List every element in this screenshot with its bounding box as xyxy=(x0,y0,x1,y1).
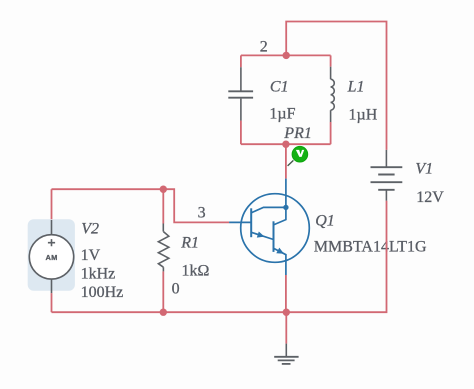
junction node 3 top xyxy=(160,186,167,193)
wire V2 top stub xyxy=(51,189,53,220)
svg-text:100Hz: 100Hz xyxy=(81,284,124,301)
svg-text:Q1: Q1 xyxy=(315,213,335,230)
wire probe node to Q1 collector xyxy=(285,144,287,178)
inductor L1 xyxy=(331,67,335,122)
wire tank bottom (node PR1) xyxy=(241,143,331,145)
transistor Q1 xyxy=(229,179,309,275)
svg-text:1µF: 1µF xyxy=(269,105,295,122)
svg-text:1V: 1V xyxy=(81,247,101,264)
junction node PR1 xyxy=(282,141,289,148)
wire ground stub xyxy=(285,312,287,343)
wire V1 bottom to ground rail xyxy=(286,201,386,312)
Q1 emitter arrow 2 xyxy=(276,248,284,254)
junction ground rail xyxy=(283,309,290,316)
svg-text:MMBTA14LT1G: MMBTA14LT1G xyxy=(314,239,427,256)
svg-text:V1: V1 xyxy=(415,161,433,178)
AM source V2 xyxy=(28,219,75,293)
wire C1 bottom stub xyxy=(240,121,242,145)
svg-text:3: 3 xyxy=(198,204,206,221)
battery V1 xyxy=(371,150,403,201)
wire top loop from node 2 junction to V1 top xyxy=(286,22,386,150)
svg-text:1µH: 1µH xyxy=(349,107,378,124)
capacitor C1 xyxy=(228,67,253,120)
wire L1 top stub xyxy=(330,55,332,66)
Q1 collector junction dot xyxy=(283,205,288,210)
svg-text:1kHz: 1kHz xyxy=(81,265,116,282)
svg-text:1kΩ: 1kΩ xyxy=(182,263,210,280)
wire C1 top stub xyxy=(240,55,242,67)
svg-text:2: 2 xyxy=(260,39,268,56)
svg-text:PR1: PR1 xyxy=(283,125,312,142)
svg-text:C1: C1 xyxy=(270,78,289,95)
junction R1 bottom xyxy=(160,309,167,316)
svg-text:0: 0 xyxy=(172,280,180,297)
ground xyxy=(274,344,298,364)
svg-text:R1: R1 xyxy=(180,235,199,252)
svg-text:AM: AM xyxy=(45,253,57,262)
wire L1 bottom stub xyxy=(330,122,332,144)
probe PR1 body xyxy=(292,146,308,162)
wire V2 bottom stub xyxy=(51,293,53,312)
wire R1 top stub xyxy=(162,189,164,223)
wire tank top (node 2) xyxy=(241,54,331,56)
svg-text:L1: L1 xyxy=(347,79,365,96)
wire left top rail xyxy=(52,188,164,190)
probe PR1 V glyph xyxy=(296,150,304,157)
wire node 3 to Q1 base xyxy=(163,189,229,222)
svg-text:V2: V2 xyxy=(81,221,99,238)
wire R1 bottom stub xyxy=(162,271,164,312)
wire Q1 emitter to bottom rail xyxy=(285,275,287,312)
wire bottom rail xyxy=(52,311,287,313)
resistor R1 xyxy=(158,224,168,272)
junction node 2 xyxy=(283,52,290,59)
probe PR1 pointer xyxy=(288,160,294,166)
Q1 emitter arrow 1 xyxy=(257,232,265,238)
svg-text:12V: 12V xyxy=(416,189,444,206)
